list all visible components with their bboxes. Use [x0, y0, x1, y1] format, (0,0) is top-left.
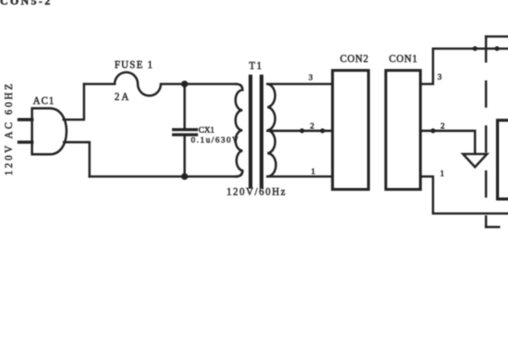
svg-text:1: 1: [311, 166, 315, 176]
wire fuse to transformer primary (top rail): [185, 83, 236, 85]
bottom rail wire: [90, 175, 237, 177]
wire CON1 pin 2 to arrow: [420, 131, 475, 154]
capacitor CX1 bottom lead: [183, 136, 185, 177]
junction dot on pin 2 wire: [300, 128, 305, 133]
svg-text:2A: 2A: [115, 92, 131, 103]
fuse FUSE 1: [84, 72, 185, 95]
wire CON1 pin 1 to bottom right: [420, 177, 508, 214]
svg-text:2: 2: [441, 121, 445, 131]
capacitor CX1 top lead: [183, 84, 185, 128]
wire plug top to fuse: [64, 84, 85, 120]
svg-text:T1: T1: [249, 61, 263, 72]
junction dot top wire: [473, 46, 478, 51]
junction dot at bottom rail: [181, 173, 188, 180]
svg-text:0.1u/630V: 0.1u/630V: [191, 135, 240, 145]
svg-text:3: 3: [309, 72, 313, 82]
AC1 prong bottom: [19, 141, 32, 144]
transformer T1 core bars: [251, 77, 262, 187]
svg-text:120V/60Hz: 120V/60Hz: [227, 187, 287, 198]
dashed enclosure border top edge: [486, 35, 508, 37]
dashed enclosure border left edge: [485, 37, 487, 228]
svg-text:2: 2: [310, 121, 314, 131]
svg-text:CON5-2: CON5-2: [0, 0, 52, 8]
connector CON2: [333, 70, 369, 189]
svg-text:CX1: CX1: [199, 125, 215, 135]
wire secondary pin 1 to CON2: [268, 175, 333, 177]
svg-text:FUSE 1: FUSE 1: [115, 60, 154, 71]
junction dot at fuse/cap node: [181, 81, 188, 88]
transformer T1 secondary winding: [268, 84, 276, 177]
svg-text:AC1: AC1: [33, 96, 55, 107]
capacitor CX1 plates: [174, 130, 197, 135]
transformer T1 primary winding: [236, 84, 243, 177]
wire secondary pin 3 to CON2: [268, 83, 333, 85]
svg-text:120V AC 60HZ: 120V AC 60HZ: [4, 81, 15, 175]
wire CON1 pin 3 to top right: [420, 49, 508, 84]
svg-text:CON1: CON1: [389, 54, 418, 65]
junction dot on pin 2 wire: [320, 128, 325, 133]
wire secondary pin 2 (center tap) to CON2: [268, 130, 333, 132]
junction dot on pin 2 wire: [431, 128, 436, 133]
AC1 prong top: [19, 118, 32, 121]
module box at right edge: [498, 120, 508, 199]
wire plug bottom to rail: [64, 142, 90, 176]
arrow head pointing down: [463, 154, 487, 167]
svg-text:3: 3: [438, 72, 442, 82]
junction dot top wire: [495, 46, 500, 51]
AC plug AC1 body: [32, 108, 67, 154]
connector CON1: [386, 70, 421, 189]
svg-text:CON2: CON2: [340, 54, 369, 65]
dashed enclosure border bottom edge: [486, 226, 499, 228]
svg-text:1: 1: [440, 168, 444, 178]
